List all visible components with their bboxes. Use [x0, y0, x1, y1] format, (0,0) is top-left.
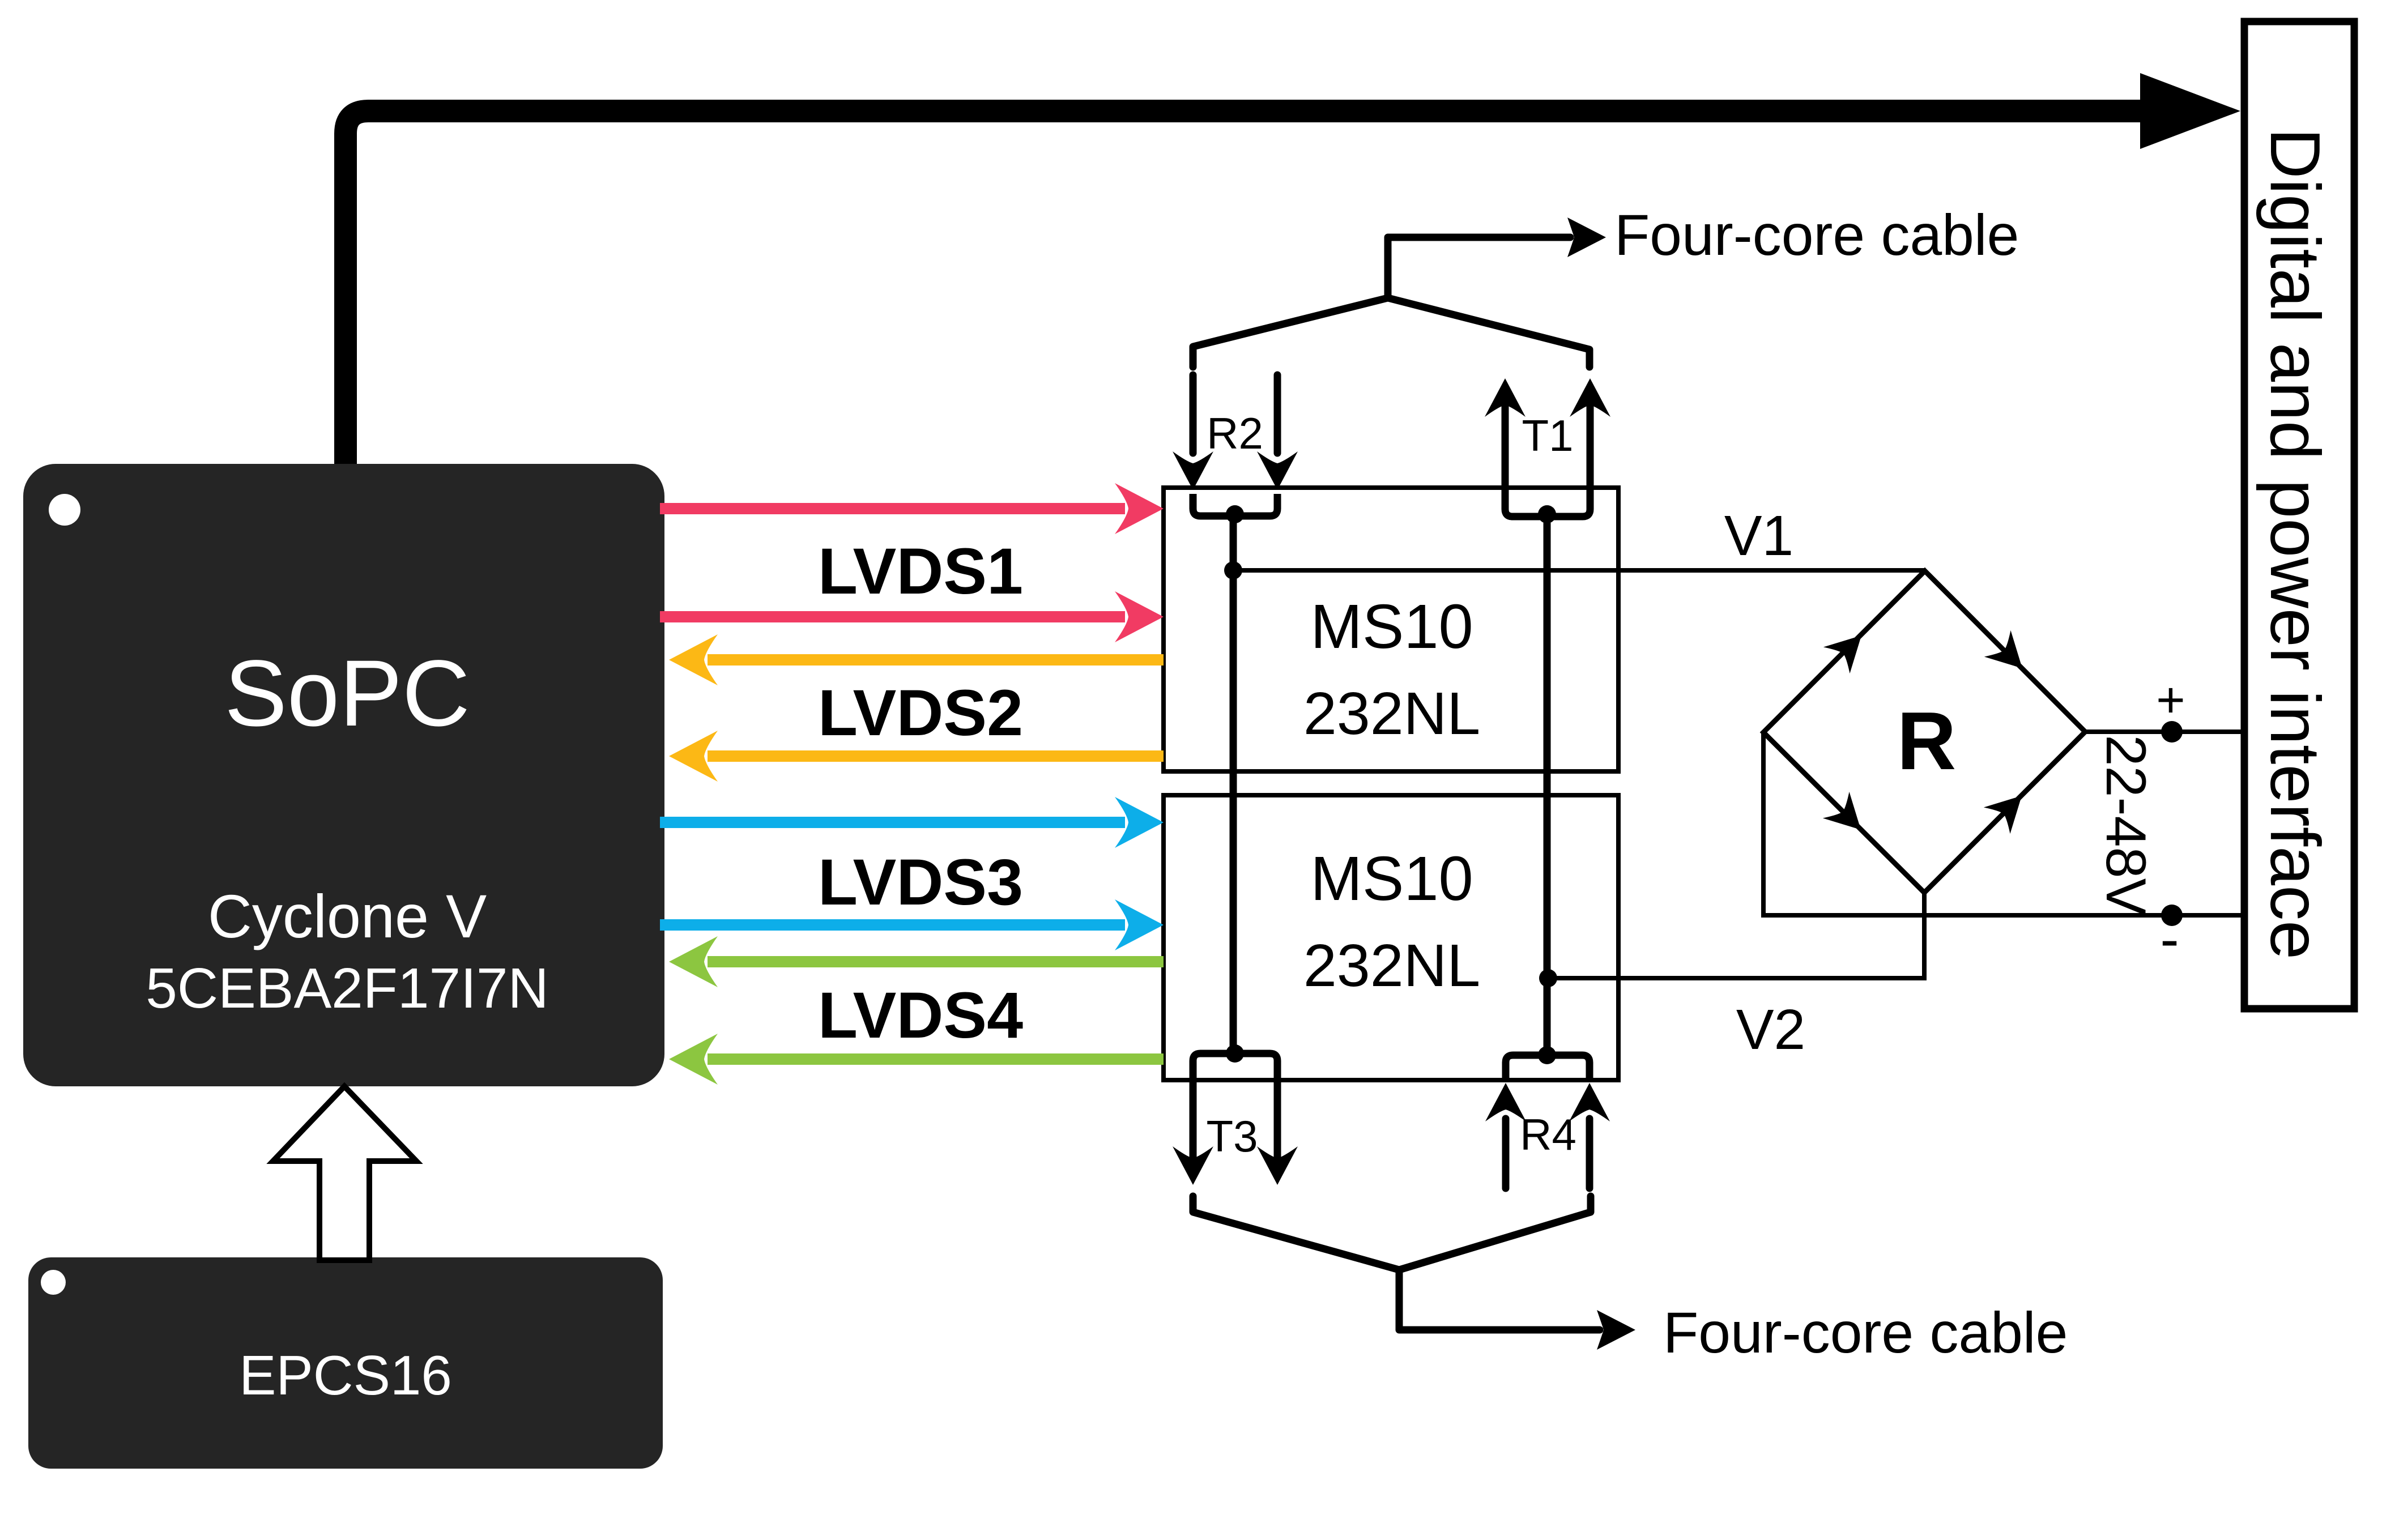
- svg-text:T3: T3: [1206, 1111, 1258, 1161]
- svg-text:232NL: 232NL: [1303, 680, 1480, 747]
- junction node on V1 branch: [1224, 561, 1242, 579]
- wire: right vertical bus through transceivers: [1544, 513, 1551, 1056]
- node: MS10 232NL transceiver 1: [1164, 488, 1618, 771]
- wire: LVDS3 pair (blue, to transceiver 2): [660, 797, 1164, 950]
- wire: bottom cable funnel: [1193, 1196, 1635, 1350]
- svg-text:V1: V1: [1724, 504, 1793, 568]
- svg-text:5CEBA2F17I7N: 5CEBA2F17I7N: [146, 957, 548, 1020]
- svg-text:LVDS2: LVDS2: [818, 677, 1023, 749]
- pin group T1 (transmitter outputs, arrows up): [1485, 378, 1610, 523]
- resistor bridge R (strain gauge diamond): [1763, 571, 2085, 893]
- net label LVDS4: [818, 979, 1023, 1052]
- svg-text:MS10: MS10: [1310, 844, 1473, 914]
- svg-text:Digital and power interface: Digital and power interface: [2256, 128, 2334, 959]
- net label LVDS3: [818, 846, 1023, 919]
- node: Digital and power interface box: [2244, 22, 2354, 1009]
- node: SoPC block: [23, 464, 664, 1086]
- node: MS10 232NL transceiver 2: [1164, 795, 1618, 1080]
- net label: Four-core cable (bottom): [1663, 1300, 2068, 1365]
- svg-text:SoPC: SoPC: [224, 641, 470, 746]
- svg-text:V2: V2: [1736, 998, 1805, 1061]
- wire: SoPC to Digital interface bus (thick): [346, 73, 2240, 470]
- svg-text:R4: R4: [1520, 1110, 1576, 1159]
- net label LVDS1: [818, 535, 1023, 608]
- svg-text:R: R: [1897, 695, 1957, 787]
- net label LVDS2: [818, 677, 1023, 749]
- node label V1: [1724, 504, 1793, 568]
- svg-text:232NL: 232NL: [1303, 932, 1480, 999]
- wire: LVDS4 pair (green, from transceiver 2): [669, 936, 1164, 1085]
- pin group R2 (receiver inputs, arrows into box): [1173, 375, 1298, 523]
- wire: bridge excitation -: [1763, 732, 2241, 971]
- svg-text:-: -: [2160, 907, 2179, 971]
- programming arrow EPCS16 to SoPC (white block arrow): [273, 1086, 416, 1260]
- net label: 22-48V supply: [2095, 735, 2158, 915]
- wire: bridge excitation +: [2085, 672, 2241, 743]
- wire: LVDS1 pair (pink, to transceiver 1): [660, 483, 1164, 642]
- svg-text:MS10: MS10: [1310, 592, 1473, 662]
- wire: LVDS2 pair (yellow, from transceiver 1): [669, 634, 1164, 782]
- pin group R4 (receiver inputs, arrows up into box): [1485, 1046, 1610, 1188]
- svg-text:R2: R2: [1207, 408, 1263, 458]
- wire: top cable funnel: [1193, 217, 1606, 367]
- pin group T3 (transmitter outputs, arrows down): [1173, 1044, 1298, 1185]
- wire: V1 sense line to bridge top: [1233, 568, 1925, 573]
- net label: Four-core cable (top): [1614, 203, 2019, 267]
- wire: left vertical bus through transceivers: [1230, 513, 1237, 1055]
- node label V2: [1736, 998, 1805, 1061]
- svg-text:LVDS4: LVDS4: [818, 979, 1023, 1052]
- svg-text:T1: T1: [1522, 411, 1573, 460]
- svg-text:Four-core cable: Four-core cable: [1614, 203, 2019, 267]
- svg-text:+: +: [2156, 672, 2185, 728]
- svg-text:LVDS1: LVDS1: [818, 535, 1023, 608]
- svg-text:LVDS3: LVDS3: [818, 846, 1023, 919]
- svg-text:Cyclone V: Cyclone V: [208, 882, 487, 950]
- svg-text:22-48V: 22-48V: [2095, 735, 2158, 915]
- junction node on V2 branch: [1539, 969, 1557, 987]
- svg-text:EPCS16: EPCS16: [239, 1344, 452, 1406]
- node: EPCS16 block: [28, 1257, 663, 1469]
- svg-text:Four-core cable: Four-core cable: [1663, 1300, 2068, 1365]
- wire: V2 sense line to bridge bottom: [1548, 894, 1924, 978]
